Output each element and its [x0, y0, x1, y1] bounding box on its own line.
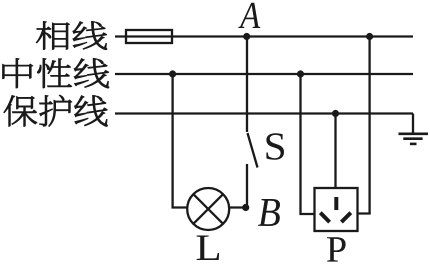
- socket P (three-prong outlet): [315, 188, 358, 231]
- junction dot on neutral wire (lamp branch): [169, 70, 176, 77]
- earth ground symbol: [399, 134, 429, 144]
- node A junction dot on live wire: [243, 33, 250, 40]
- wire: lamp to node B: [229, 206, 246, 208]
- label 中性线 (neutral wire): [3, 58, 109, 88]
- label 保护线 (protective wire): [4, 95, 108, 126]
- lamp L (circle with cross): [187, 188, 229, 230]
- wire: live to socket right: [358, 37, 370, 214]
- junction dot on live wire (socket branch): [366, 33, 373, 40]
- junction dot on protective wire (socket earth branch): [332, 110, 339, 117]
- wire: switch to node B: [246, 164, 248, 208]
- label A (node A): [238, 3, 260, 28]
- label S (switch): [266, 133, 284, 160]
- wire: node A down to switch S: [246, 37, 248, 133]
- switch S (open blade): [248, 133, 258, 168]
- wire: neutral to lamp L: [173, 74, 188, 208]
- wire: neutral to socket left: [301, 74, 315, 214]
- wire: protective earth to socket top: [334, 114, 336, 189]
- wire: protective line to earth: [412, 114, 414, 134]
- label B (node B): [258, 199, 280, 226]
- wire: protective earth line 保护线: [115, 112, 413, 114]
- label L (lamp): [197, 235, 220, 260]
- wire: neutral line 中性线: [115, 73, 413, 75]
- label P (socket): [327, 237, 346, 261]
- node B dot: [242, 204, 249, 211]
- label 相线 (live wire): [36, 21, 107, 49]
- fuse F on live wire: [126, 30, 172, 43]
- wire: live line 相线: [115, 35, 413, 37]
- junction dot on neutral wire (socket branch): [297, 70, 304, 77]
